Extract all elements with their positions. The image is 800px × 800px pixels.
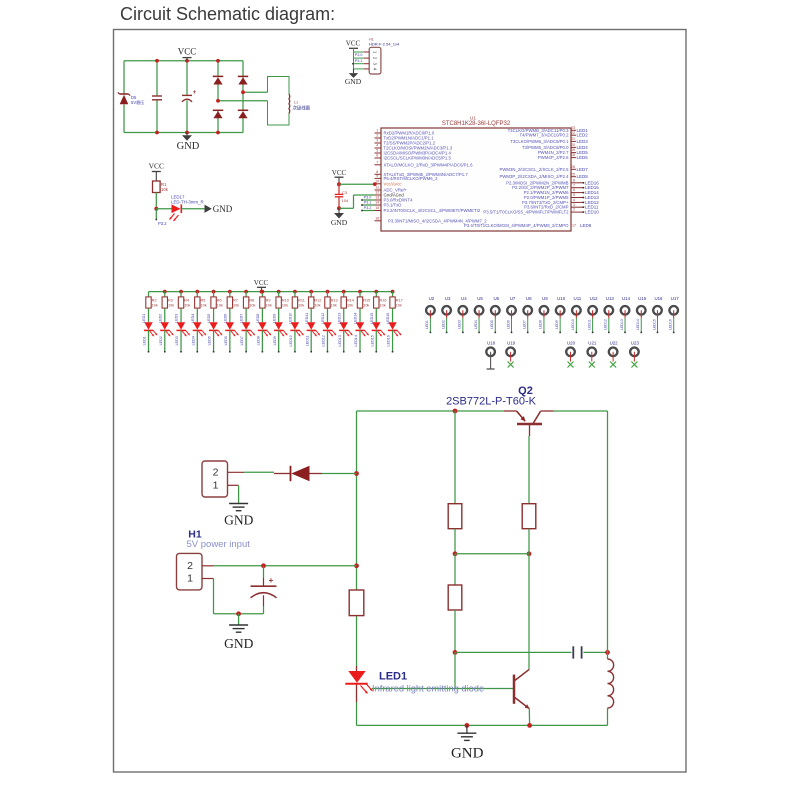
svg-text:LED3: LED3 [175, 336, 179, 345]
svg-text:+: + [269, 576, 274, 585]
svg-text:10k: 10k [233, 303, 239, 307]
svg-text:R3: R3 [168, 298, 173, 302]
svg-text:13: 13 [375, 196, 379, 200]
svg-text:LED9: LED9 [272, 314, 276, 323]
svg-text:L1: L1 [294, 101, 298, 105]
svg-text:4: 4 [573, 198, 575, 202]
svg-text:U5: U5 [477, 296, 483, 301]
svg-text:22: 22 [571, 131, 575, 135]
svg-text:C3: C3 [342, 190, 348, 195]
svg-text:D5: D5 [131, 95, 137, 100]
svg-text:7: 7 [573, 183, 575, 187]
svg-text:LED8: LED8 [256, 314, 260, 323]
svg-text:R10: R10 [282, 298, 289, 302]
svg-text:R9: R9 [266, 298, 271, 302]
svg-text:2: 2 [213, 466, 219, 478]
svg-text:+: + [193, 90, 197, 96]
svg-text:LED14: LED14 [585, 190, 599, 195]
svg-text:P3.7/INT3/TxD_2/CMP+: P3.7/INT3/TxD_2/CMP+ [522, 200, 569, 205]
svg-text:LED5: LED5 [490, 320, 494, 329]
svg-text:5: 5 [376, 149, 378, 153]
svg-text:R8: R8 [249, 298, 254, 302]
svg-text:U22: U22 [610, 340, 619, 345]
svg-text:LED12: LED12 [585, 200, 599, 205]
svg-text:U10: U10 [557, 296, 566, 301]
svg-text:LED7: LED7 [240, 336, 244, 345]
svg-text:10k: 10k [184, 303, 190, 307]
svg-text:P3.4/T0/T1CLKO/MOSI_4/PWM4P_4/: P3.4/T0/T1CLKO/MOSI_4/PWM4P_4/PWM8_2/CMP… [464, 223, 569, 228]
svg-text:GND: GND [224, 636, 253, 651]
svg-text:T4CLKO/PWMB_3/ADC11/P0.3: T4CLKO/PWMB_3/ADC11/P0.3 [508, 128, 569, 133]
svg-text:16: 16 [375, 216, 379, 220]
svg-text:LED9: LED9 [273, 336, 277, 345]
svg-text:8: 8 [376, 170, 378, 174]
svg-text:U14: U14 [622, 296, 631, 301]
svg-text:LED8: LED8 [577, 174, 589, 179]
svg-text:LED11: LED11 [305, 313, 309, 324]
svg-text:R5: R5 [201, 298, 206, 302]
svg-text:1: 1 [187, 573, 193, 585]
svg-text:LED15: LED15 [652, 319, 656, 330]
svg-text:R13: R13 [331, 298, 338, 302]
svg-text:U17: U17 [671, 296, 680, 301]
svg-text:R6: R6 [217, 298, 222, 302]
svg-text:3: 3 [376, 139, 378, 143]
svg-text:10k: 10k [396, 303, 402, 307]
svg-text:LED4: LED4 [191, 336, 195, 345]
svg-text:LED12: LED12 [604, 319, 608, 330]
svg-text:U23: U23 [631, 340, 640, 345]
svg-text:U6: U6 [493, 296, 499, 301]
svg-text:PWM3N_2/I2CSCL_2/SCLK_2/P2.5: PWM3N_2/I2CSCL_2/SCLK_2/P2.5 [499, 167, 569, 172]
svg-text:LED1: LED1 [142, 314, 146, 323]
svg-text:U11: U11 [574, 296, 582, 301]
svg-text:T3/PWM5_3/ADC8/P0.0: T3/PWM5_3/ADC8/P0.0 [522, 145, 569, 150]
svg-text:5V稳压: 5V稳压 [131, 99, 145, 106]
svg-text:R4: R4 [184, 298, 189, 302]
svg-text:LED2: LED2 [441, 320, 445, 329]
svg-text:PWM4N_2/P2.7: PWM4N_2/P2.7 [538, 150, 569, 155]
svg-text:I2CSDA/MISO/PWM3P/ADC4/P1.4: I2CSDA/MISO/PWM3P/ADC4/P1.4 [384, 151, 452, 156]
svg-text:U21: U21 [588, 340, 597, 345]
svg-text:P3.1: P3.1 [355, 59, 363, 63]
svg-text:R14: R14 [347, 298, 354, 302]
svg-text:10k: 10k [314, 303, 320, 307]
svg-text:18: 18 [571, 153, 575, 157]
svg-text:1: 1 [213, 479, 219, 491]
svg-text:R11: R11 [298, 298, 305, 302]
svg-text:25: 25 [571, 172, 575, 176]
svg-text:VCC: VCC [149, 161, 164, 170]
svg-text:LED6: LED6 [223, 314, 227, 323]
svg-text:LED16: LED16 [386, 313, 390, 324]
svg-text:STC8H1K28-36I-LQFP32: STC8H1K28-36I-LQFP32 [442, 121, 511, 127]
svg-text:LED6: LED6 [577, 155, 589, 160]
svg-text:26: 26 [571, 165, 575, 169]
svg-text:VCC: VCC [254, 279, 269, 287]
svg-text:LED16: LED16 [585, 180, 599, 185]
svg-text:LED11: LED11 [305, 335, 309, 346]
svg-text:LED10: LED10 [585, 210, 599, 215]
svg-text:11: 11 [375, 186, 379, 190]
svg-text:GND: GND [331, 218, 348, 227]
svg-text:14: 14 [375, 201, 379, 205]
svg-text:U12: U12 [590, 296, 599, 301]
svg-text:23: 23 [571, 126, 575, 130]
svg-text:P3.6/INT2/RxD_2/CMP: P3.6/INT2/RxD_2/CMP [524, 205, 569, 210]
svg-text:LED6: LED6 [224, 336, 228, 345]
svg-text:10k: 10k [363, 303, 369, 307]
svg-text:P3.5/T1/T0CLKO/SS_4/PWMFLT/PWM: P3.5/T1/T0CLKO/SS_4/PWMFLT/PWMFLT2 [483, 210, 569, 215]
svg-text:10k: 10k [217, 303, 223, 307]
svg-text:LED10: LED10 [571, 319, 575, 330]
svg-text:U16: U16 [654, 296, 663, 301]
svg-text:P3.0: P3.0 [364, 195, 372, 199]
svg-text:5: 5 [573, 193, 575, 197]
svg-text:U9: U9 [542, 296, 548, 301]
svg-text:5V power input: 5V power input [187, 539, 251, 550]
svg-text:2SB772L-P-T60-K: 2SB772L-P-T60-K [446, 396, 537, 408]
svg-text:TxD2/PWM1N/ADC1/P1.1: TxD2/PWM1N/ADC1/P1.1 [384, 136, 435, 141]
svg-text:LED7: LED7 [577, 167, 589, 172]
svg-text:LED12: LED12 [321, 313, 325, 324]
svg-text:R16: R16 [379, 298, 386, 302]
svg-text:H1: H1 [188, 529, 202, 541]
svg-text:8: 8 [573, 178, 575, 182]
svg-text:U18: U18 [487, 340, 496, 345]
svg-text:R2: R2 [152, 298, 157, 302]
svg-text:GND: GND [345, 77, 362, 86]
svg-text:P2.0/PWM1P_2/PWM5: P2.0/PWM1P_2/PWM5 [524, 195, 569, 200]
svg-text:U13: U13 [606, 296, 615, 301]
svg-text:P5.4/RST/MCLKO/PWM6_2: P5.4/RST/MCLKO/PWM6_2 [384, 176, 439, 181]
svg-text:LED17: LED17 [171, 195, 185, 200]
svg-text:P3.2/INT0/SCLK_4/I2CSCL_4/PWME: P3.2/INT0/SCLK_4/I2CSCL_4/PWMETI/PWMETI2 [384, 208, 481, 213]
svg-text:U8: U8 [526, 296, 532, 301]
svg-text:LED1: LED1 [577, 128, 589, 133]
svg-text:LED14: LED14 [354, 313, 358, 324]
svg-text:Infrared light emitting diode: Infrared light emitting diode [372, 683, 484, 693]
svg-text:10k: 10k [379, 303, 385, 307]
svg-text:10k: 10k [152, 303, 158, 307]
svg-text:21: 21 [571, 137, 575, 141]
svg-text:VCC: VCC [178, 47, 197, 57]
svg-text:U4: U4 [461, 296, 467, 301]
svg-text:12: 12 [375, 191, 379, 195]
svg-text:P2.3/MOSI_2/PWM2N_2/PWMB: P2.3/MOSI_2/PWM2N_2/PWMB [506, 180, 568, 185]
svg-text:R1: R1 [161, 182, 167, 187]
svg-text:T2/SS/PWM2P/ADC2/P1.2: T2/SS/PWM2P/ADC2/P1.2 [384, 141, 436, 146]
svg-text:U2: U2 [429, 296, 435, 301]
svg-text:P3.0/RxD/INT4: P3.0/RxD/INT4 [384, 198, 414, 203]
svg-text:LED13: LED13 [620, 319, 624, 330]
svg-text:LED13: LED13 [337, 313, 341, 324]
svg-text:LED9: LED9 [555, 320, 559, 329]
svg-text:H1: H1 [369, 37, 374, 41]
svg-text:P3.3/INT1/MISO_4/I2CSDA_4/PWM4: P3.3/INT1/MISO_4/I2CSDA_4/PWM4N_4/PWM7_2 [388, 218, 487, 223]
svg-text:LED13: LED13 [338, 335, 342, 346]
svg-text:LED4: LED4 [577, 145, 589, 150]
svg-text:20: 20 [571, 143, 575, 147]
svg-text:LED13: LED13 [585, 195, 599, 200]
svg-text:LED11: LED11 [585, 205, 599, 210]
svg-text:VCC: VCC [346, 40, 361, 48]
svg-text:2: 2 [187, 560, 193, 572]
svg-text:LED5: LED5 [207, 314, 211, 323]
svg-text:LED15: LED15 [370, 335, 374, 346]
svg-text:HDR-F-2.54_1x4: HDR-F-2.54_1x4 [369, 41, 400, 46]
svg-text:P3.0: P3.0 [355, 53, 363, 57]
svg-text:U20: U20 [567, 340, 576, 345]
svg-text:GND: GND [224, 512, 253, 527]
svg-text:LED7: LED7 [240, 314, 244, 323]
svg-text:10k: 10k [201, 303, 207, 307]
svg-text:ADC_VRef+: ADC_VRef+ [384, 188, 408, 193]
svg-text:10k: 10k [161, 187, 169, 192]
svg-text:LED6: LED6 [506, 320, 510, 329]
svg-text:LED4: LED4 [191, 314, 195, 323]
svg-text:P3.2: P3.2 [158, 221, 167, 226]
svg-text:LED12: LED12 [322, 335, 326, 346]
svg-text:LED7: LED7 [523, 320, 527, 329]
svg-text:PWM3P_2/I2CSDA_2/MISO_2/P2.4: PWM3P_2/I2CSDA_2/MISO_2/P2.4 [499, 174, 569, 179]
svg-text:LED16: LED16 [387, 335, 391, 346]
svg-text:P3.1/TxD: P3.1/TxD [384, 203, 402, 208]
svg-text:LED16: LED16 [669, 319, 673, 330]
svg-text:LED5: LED5 [208, 336, 212, 345]
svg-text:LED3: LED3 [577, 139, 589, 144]
svg-text:LED15: LED15 [370, 313, 374, 324]
svg-text:P2.2/SS_2/PWM2P_2/PWM7: P2.2/SS_2/PWM2P_2/PWM7 [512, 185, 569, 190]
svg-text:GND: GND [213, 204, 233, 214]
svg-text:10k: 10k [282, 303, 288, 307]
svg-text:Gnd/AGnd: Gnd/AGnd [384, 193, 405, 198]
svg-text:LED1: LED1 [425, 320, 429, 329]
svg-text:RxD2/PWM1R/ADC0/P1.0: RxD2/PWM1R/ADC0/P1.0 [384, 131, 435, 136]
svg-text:LED-TH-3mm_R: LED-TH-3mm_R [171, 200, 204, 205]
svg-text:LED3: LED3 [175, 314, 179, 323]
svg-text:17: 17 [572, 223, 576, 227]
svg-text:LED5: LED5 [577, 150, 589, 155]
svg-text:T2CLKO/MOSI/PWM2N/ADC3/P1.3: T2CLKO/MOSI/PWM2N/ADC3/P1.3 [384, 146, 453, 151]
svg-text:LED2: LED2 [158, 314, 162, 323]
svg-text:LED1: LED1 [143, 336, 147, 345]
svg-text:I2CSCL/SCLK/PWM3N/ADC5/P1.5: I2CSCL/SCLK/PWM3N/ADC5/P1.5 [384, 156, 452, 161]
svg-text:VCC: VCC [332, 169, 347, 177]
svg-text:LED8: LED8 [256, 336, 260, 345]
svg-text:6: 6 [376, 154, 378, 158]
svg-text:104: 104 [342, 198, 349, 203]
svg-text:LED3: LED3 [458, 320, 462, 329]
svg-text:P3.1: P3.1 [364, 200, 372, 204]
svg-text:P2.1/PWM1N_2/PWM6: P2.1/PWM1N_2/PWM6 [524, 190, 570, 195]
svg-text:LED11: LED11 [587, 319, 591, 329]
svg-text:XTALO/MCLKO_2/RxD_3/PWM4P/ADC6: XTALO/MCLKO_2/RxD_3/PWM4P/ADC6/P1.6 [384, 162, 474, 167]
svg-text:LED14: LED14 [354, 335, 358, 346]
svg-text:6: 6 [573, 188, 575, 192]
svg-text:LED15: LED15 [585, 185, 599, 190]
svg-text:LED9: LED9 [580, 223, 592, 228]
svg-text:U19: U19 [507, 340, 516, 345]
svg-text:U7: U7 [510, 296, 516, 301]
svg-text:次级线圈: 次级线圈 [293, 104, 311, 111]
svg-text:LED8: LED8 [539, 320, 543, 329]
svg-text:10k: 10k [331, 303, 337, 307]
svg-text:LED4: LED4 [474, 320, 478, 329]
svg-text:T3CLKO/PWM6_3/ADC9/P0.1: T3CLKO/PWM6_3/ADC9/P0.1 [510, 139, 569, 144]
svg-text:U3: U3 [445, 296, 451, 301]
svg-text:7: 7 [376, 160, 378, 164]
svg-text:R12: R12 [314, 298, 321, 302]
svg-text:10k: 10k [249, 303, 255, 307]
svg-text:1: 1 [376, 129, 378, 133]
svg-text:10k: 10k [168, 303, 174, 307]
svg-text:U15: U15 [638, 296, 647, 301]
svg-text:10k: 10k [347, 303, 353, 307]
svg-text:Q2: Q2 [518, 385, 533, 397]
svg-text:2: 2 [376, 134, 378, 138]
svg-text:LED10: LED10 [289, 313, 293, 324]
svg-text:R7: R7 [233, 298, 238, 302]
svg-text:R17: R17 [396, 298, 403, 302]
svg-text:10k: 10k [298, 303, 304, 307]
svg-text:GND: GND [177, 141, 200, 152]
svg-text:U1: U1 [470, 116, 476, 121]
svg-text:9: 9 [376, 174, 378, 178]
svg-text:Vcc/AVcc: Vcc/AVcc [384, 181, 403, 186]
svg-text:15: 15 [375, 206, 379, 210]
svg-text:4: 4 [376, 144, 378, 148]
svg-text:R15: R15 [363, 298, 370, 302]
svg-text:P3.2: P3.2 [364, 206, 372, 210]
svg-text:T4/PWM7_3/ADC10/P0.2: T4/PWM7_3/ADC10/P0.2 [520, 133, 570, 138]
svg-text:2: 2 [573, 208, 575, 212]
svg-text:3: 3 [573, 203, 575, 207]
svg-text:19: 19 [571, 148, 575, 152]
svg-text:PWM4P_2/P2.6: PWM4P_2/P2.6 [538, 155, 569, 160]
svg-text:GND: GND [451, 746, 484, 762]
svg-text:LED14: LED14 [636, 319, 640, 330]
svg-text:LED2: LED2 [159, 336, 163, 345]
svg-text:10k: 10k [266, 303, 272, 307]
svg-text:LED10: LED10 [289, 335, 293, 346]
svg-text:LED2: LED2 [577, 133, 589, 138]
svg-text:LED1: LED1 [379, 670, 407, 682]
